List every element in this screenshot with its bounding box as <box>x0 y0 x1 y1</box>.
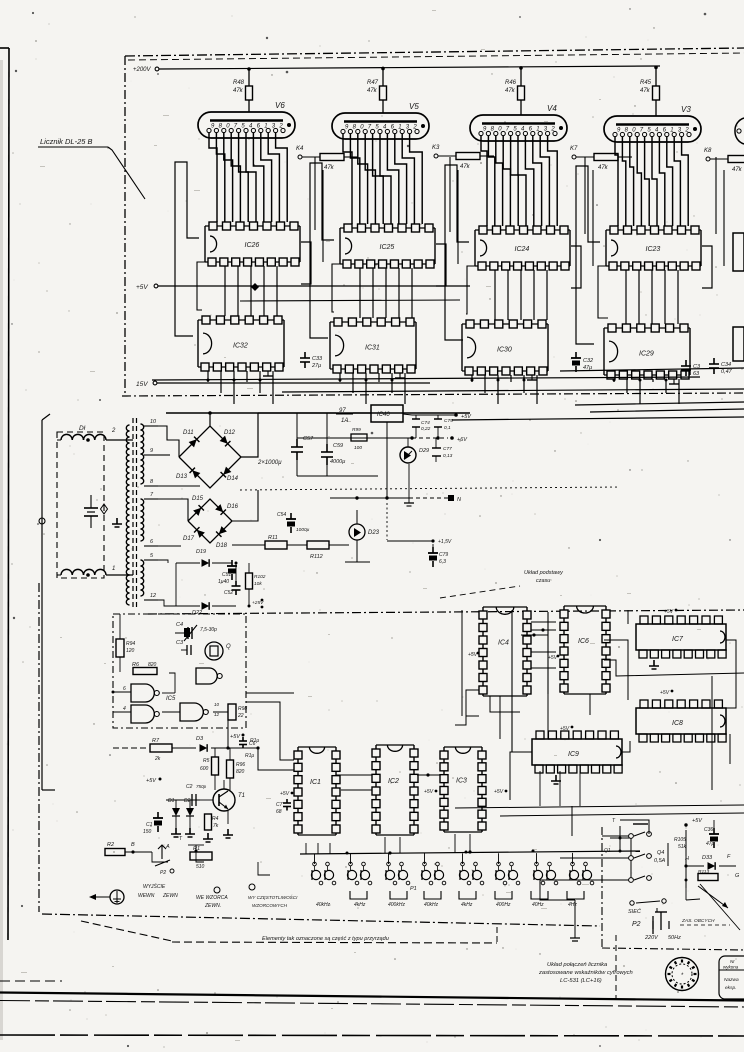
svg-text:Q4: Q4 <box>657 850 664 856</box>
svg-text:IC30: IC30 <box>497 346 512 353</box>
svg-text:1A: 1A <box>341 418 348 424</box>
svg-text:IC26: IC26 <box>245 242 260 249</box>
svg-text:IC29: IC29 <box>639 350 654 357</box>
svg-text:7,5-30p: 7,5-30p <box>200 627 217 633</box>
svg-text:0,13: 0,13 <box>443 453 453 459</box>
svg-text:IC2: IC2 <box>388 778 399 785</box>
svg-text:D13: D13 <box>176 474 188 480</box>
svg-text:7k: 7k <box>213 823 219 829</box>
svg-text:C36: C36 <box>704 827 713 833</box>
svg-text:600: 600 <box>200 766 209 772</box>
svg-text:0,1: 0,1 <box>444 425 451 431</box>
svg-text:+5V: +5V <box>280 791 290 797</box>
svg-text:2k: 2k <box>154 756 161 762</box>
svg-text:+5V: +5V <box>424 789 434 795</box>
svg-text:wykona: wykona <box>723 965 739 970</box>
svg-text:10k: 10k <box>254 581 262 587</box>
svg-text:+1,5V: +1,5V <box>438 539 452 545</box>
svg-text:12: 12 <box>214 712 220 717</box>
svg-text:47k: 47k <box>460 164 471 170</box>
svg-text:R99: R99 <box>352 427 361 433</box>
svg-text:ZEWN.: ZEWN. <box>204 903 221 909</box>
svg-text:R48: R48 <box>233 80 245 86</box>
svg-text:IC5: IC5 <box>166 696 176 702</box>
svg-text:R11: R11 <box>268 535 278 541</box>
svg-text:820: 820 <box>236 769 245 775</box>
svg-text:IC25: IC25 <box>380 244 395 251</box>
svg-text:C2: C2 <box>186 784 193 790</box>
svg-text:1μ40: 1μ40 <box>218 579 229 585</box>
svg-text:47k: 47k <box>367 88 378 94</box>
svg-text:C77: C77 <box>443 446 452 452</box>
svg-text:510: 510 <box>196 864 205 870</box>
svg-text:C54: C54 <box>277 512 286 518</box>
svg-text:R46: R46 <box>505 80 517 86</box>
svg-text:K3: K3 <box>432 145 440 151</box>
svg-text:C74: C74 <box>421 420 430 426</box>
svg-text:4000μ: 4000μ <box>330 459 345 465</box>
svg-text:K7: K7 <box>570 146 578 152</box>
svg-text:D22: D22 <box>192 610 202 616</box>
svg-text:+5V: +5V <box>548 655 558 661</box>
svg-text:H: H <box>685 856 689 862</box>
svg-text:R102: R102 <box>254 574 266 580</box>
svg-text:Licznik DL-25 B: Licznik DL-25 B <box>40 137 93 146</box>
svg-text:220V: 220V <box>644 935 659 941</box>
svg-text:zastosowane wskaźników cyfro: zastosowane wskaźników cyfrowych <box>538 970 633 976</box>
svg-text:10: 10 <box>150 419 157 425</box>
svg-text:R105: R105 <box>674 837 686 843</box>
svg-text:+5V: +5V <box>660 690 670 696</box>
svg-text:IC3: IC3 <box>456 778 467 785</box>
svg-text:Q1: Q1 <box>604 848 611 854</box>
svg-text:+5V: +5V <box>692 818 703 824</box>
svg-text:2: 2 <box>111 428 116 434</box>
svg-text:750p: 750p <box>196 784 207 789</box>
svg-text:czasu: czasu <box>536 578 550 584</box>
svg-text:G: G <box>735 873 740 879</box>
svg-text:D3: D3 <box>196 736 204 742</box>
svg-text:47k: 47k <box>640 88 651 94</box>
svg-text:C57: C57 <box>303 436 314 442</box>
svg-text:IC23: IC23 <box>646 246 661 253</box>
svg-text:C75: C75 <box>444 418 453 424</box>
svg-text:P1: P1 <box>410 886 417 892</box>
svg-text:Układ podstawy: Układ podstawy <box>524 570 564 576</box>
svg-text:R45: R45 <box>640 80 652 86</box>
svg-text:120: 120 <box>126 648 135 654</box>
svg-text:40kHz: 40kHz <box>316 902 331 908</box>
svg-text:K4: K4 <box>296 146 304 152</box>
svg-text:C33: C33 <box>312 356 323 362</box>
svg-text:D18: D18 <box>216 543 228 549</box>
svg-text:10: 10 <box>214 702 220 707</box>
svg-text:R5: R5 <box>203 758 210 764</box>
svg-text:Nr: Nr <box>730 959 735 964</box>
svg-text:1000μ: 1000μ <box>296 527 310 533</box>
svg-text:R1μ: R1μ <box>250 738 259 744</box>
svg-text:IC24: IC24 <box>515 246 530 253</box>
svg-text:WEWN: WEWN <box>138 893 155 899</box>
svg-text:C51: C51 <box>222 572 231 578</box>
svg-text:+5V: +5V <box>560 726 570 732</box>
svg-text:9: 9 <box>150 448 153 454</box>
svg-text:40Hz: 40Hz <box>532 902 544 908</box>
svg-text:4kHz: 4kHz <box>461 902 473 908</box>
svg-text:4Hz: 4Hz <box>568 902 577 908</box>
svg-text:WY CZĘSTOTLIWOŚCI: WY CZĘSTOTLIWOŚCI <box>248 894 298 900</box>
svg-text:V3: V3 <box>681 105 691 114</box>
svg-text:C4: C4 <box>176 622 183 628</box>
svg-text:D2: D2 <box>184 798 191 804</box>
svg-text:97: 97 <box>339 408 346 414</box>
svg-text:47k: 47k <box>598 165 609 171</box>
svg-text:47μ: 47μ <box>706 841 715 847</box>
svg-text:IC32: IC32 <box>233 342 248 349</box>
svg-text:ZAS. OBCYCH: ZAS. OBCYCH <box>681 918 715 924</box>
svg-text:27μ: 27μ <box>311 363 321 369</box>
svg-text:R7: R7 <box>152 738 160 744</box>
svg-text:IC40: IC40 <box>377 412 390 418</box>
svg-text:150: 150 <box>143 829 152 835</box>
svg-text:eksp.: eksp. <box>725 985 736 991</box>
svg-text:A: A <box>165 844 170 850</box>
svg-text:0,22: 0,22 <box>421 426 431 432</box>
svg-text:47k: 47k <box>732 167 743 173</box>
svg-text:LC-531 (LC+16): LC-531 (LC+16) <box>560 978 602 984</box>
svg-text:400kHz: 400kHz <box>388 902 405 908</box>
svg-text:R94: R94 <box>126 641 135 647</box>
svg-text:4kHz: 4kHz <box>354 902 366 908</box>
svg-text:D11: D11 <box>183 430 194 436</box>
svg-text:12: 12 <box>150 593 156 599</box>
svg-text:WZORCOWYCH: WZORCOWYCH <box>252 903 288 908</box>
svg-text:K8: K8 <box>704 148 712 154</box>
svg-text:D33: D33 <box>702 855 713 861</box>
svg-text:R4: R4 <box>212 816 219 822</box>
svg-text:Układ połączeń licznika: Układ połączeń licznika <box>547 962 608 968</box>
svg-text:D29: D29 <box>419 448 429 454</box>
svg-text:WYJŚCIE: WYJŚCIE <box>143 883 166 890</box>
svg-text:+5V: +5V <box>468 652 478 658</box>
svg-text:R2: R2 <box>107 842 114 848</box>
svg-text:B: B <box>131 842 135 848</box>
svg-text:+5V: +5V <box>494 789 504 795</box>
svg-text:V4: V4 <box>547 104 557 113</box>
svg-text:V5: V5 <box>409 102 419 111</box>
svg-text:+5V: +5V <box>230 734 241 740</box>
svg-text:1: 1 <box>112 566 115 572</box>
svg-text:D23: D23 <box>368 530 380 536</box>
svg-text:+5V: +5V <box>146 778 157 784</box>
svg-text:N: N <box>457 497 461 503</box>
svg-text:C3: C3 <box>176 640 184 646</box>
svg-text:C79: C79 <box>439 552 448 558</box>
svg-text:Dł: Dł <box>79 425 86 432</box>
svg-text:D16: D16 <box>227 504 239 510</box>
svg-text:V6: V6 <box>275 101 285 110</box>
svg-text:SIEĆ: SIEĆ <box>628 908 641 915</box>
svg-text:51k: 51k <box>678 844 687 850</box>
svg-text:P2: P2 <box>160 870 166 876</box>
svg-text:47k: 47k <box>324 165 335 171</box>
svg-text:R112: R112 <box>310 554 323 560</box>
svg-text:68: 68 <box>276 809 282 815</box>
svg-text:22: 22 <box>237 713 244 719</box>
svg-text:+6V: +6V <box>457 437 468 443</box>
svg-text:C1: C1 <box>146 822 153 828</box>
svg-text:R47: R47 <box>367 80 379 86</box>
svg-text:Elementy tak oznaczone s: Elementy tak oznaczone są część z typu p… <box>262 936 389 942</box>
svg-text:+5V: +5V <box>136 284 148 291</box>
svg-text:IC1: IC1 <box>310 779 321 786</box>
svg-text:IC8: IC8 <box>672 720 683 727</box>
svg-text:IC9: IC9 <box>568 751 579 758</box>
svg-text:820: 820 <box>148 662 157 668</box>
svg-text:Q: Q <box>226 644 231 650</box>
svg-text:100: 100 <box>354 445 362 451</box>
svg-text:6,3: 6,3 <box>439 559 446 565</box>
svg-text:50Hz: 50Hz <box>668 935 681 941</box>
svg-text:D12: D12 <box>224 430 236 436</box>
svg-text:0,5A: 0,5A <box>654 858 666 864</box>
svg-text:+5V: +5V <box>664 609 674 615</box>
svg-text:C32: C32 <box>583 358 593 364</box>
svg-text:+200V: +200V <box>133 67 152 73</box>
svg-text:4: 4 <box>123 706 126 712</box>
svg-text:6: 6 <box>123 686 126 692</box>
svg-text:R1μ: R1μ <box>245 753 254 759</box>
svg-text:Nazwa: Nazwa <box>724 977 739 983</box>
svg-text:R98: R98 <box>238 706 247 712</box>
svg-text:400Hz: 400Hz <box>496 902 511 908</box>
svg-text:C52: C52 <box>224 590 233 596</box>
svg-text:47k: 47k <box>505 88 516 94</box>
svg-text:IC4: IC4 <box>498 639 509 646</box>
svg-text:15V: 15V <box>136 381 148 388</box>
svg-text:D1: D1 <box>168 798 175 804</box>
svg-text:C34: C34 <box>721 362 731 368</box>
svg-text:R113: R113 <box>698 869 709 875</box>
svg-text:+5V: +5V <box>461 414 472 420</box>
svg-text:T1: T1 <box>238 793 245 799</box>
svg-text:D15: D15 <box>192 496 204 502</box>
svg-text:R96: R96 <box>236 762 245 768</box>
svg-text:IC7: IC7 <box>672 636 684 643</box>
svg-text:D14: D14 <box>227 476 239 482</box>
svg-text:D19: D19 <box>196 549 206 555</box>
svg-text:ZEWN: ZEWN <box>162 893 178 899</box>
svg-text:2×1000μ: 2×1000μ <box>257 460 282 466</box>
svg-text:IC31: IC31 <box>365 344 380 351</box>
svg-text:IC6: IC6 <box>578 638 589 645</box>
svg-text:63: 63 <box>693 371 700 377</box>
svg-text:R6: R6 <box>132 662 140 668</box>
svg-text:40kHz: 40kHz <box>424 902 439 908</box>
svg-text:C7: C7 <box>276 802 283 808</box>
svg-text:WE WZORCA: WE WZORCA <box>196 895 228 901</box>
svg-text:P2: P2 <box>632 921 641 928</box>
svg-text:47k: 47k <box>233 88 244 94</box>
svg-text:0,47: 0,47 <box>721 369 733 375</box>
svg-text:C59: C59 <box>333 443 343 449</box>
svg-text:D17: D17 <box>183 536 195 542</box>
